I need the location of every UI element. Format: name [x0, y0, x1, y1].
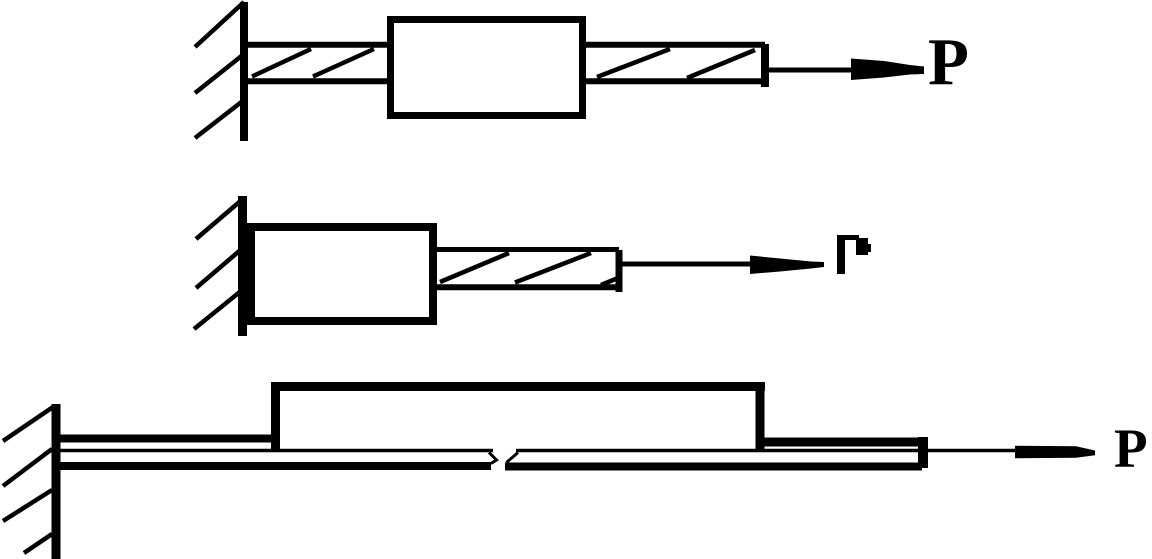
right rod hatch 2: [687, 50, 755, 78]
wall hatch 2c: [194, 291, 241, 329]
rod end cap (figure 2): [616, 250, 623, 292]
force arrowhead (figure 1): [851, 59, 924, 81]
cover plate fill (figure 3): [275, 386, 760, 448]
left rod hatch 2: [313, 49, 374, 77]
bottom sheet left segment (figure 3): [60, 462, 491, 470]
rod bottom edge (figure 2): [437, 284, 619, 290]
wall hatch 3a: [3, 407, 53, 441]
left rod bottom edge (figure 1): [248, 78, 392, 84]
rod hatch 1 (figure 2): [440, 253, 509, 282]
cover plate left border (figure 3): [271, 382, 280, 452]
svg-text:P: P: [928, 25, 969, 99]
force line (figure 3): [926, 449, 1020, 453]
cover plate top border (figure 3): [271, 382, 765, 391]
large block (figure 1): [391, 20, 583, 116]
label P bowl fragment (figure 2): [856, 238, 868, 255]
label P top bar (figure 2): [837, 235, 859, 240]
rod hatch 2 (figure 2): [515, 253, 591, 283]
left strip top edge (figure 3): [60, 435, 276, 443]
right rod hatch 1: [597, 49, 670, 77]
left rod top edge (figure 1): [248, 42, 392, 48]
label P stem (figure 2, degraded glyph): [837, 235, 845, 274]
force arrowhead (figure 2): [750, 256, 824, 275]
wall hatch 3b: [3, 449, 52, 486]
label P bowl nub (figure 2): [866, 244, 871, 252]
right rod top edge (figure 1): [582, 42, 765, 48]
wall support (figure 1): [240, 2, 248, 141]
right strip top edge (figure 3): [760, 438, 922, 447]
rod end cap (figure 1): [761, 44, 769, 87]
cover plate right border (figure 3): [756, 382, 765, 452]
force line (figure 2): [622, 262, 754, 267]
wall hatch 3d: [24, 534, 52, 553]
strip end cap (figure 3): [918, 437, 928, 468]
large block (figure 2): [251, 227, 433, 321]
wall hatch 1b: [195, 54, 244, 93]
wall support (figure 3): [52, 404, 61, 559]
wall hatch 1c: [195, 100, 244, 138]
svg-text:P: P: [1114, 418, 1148, 479]
wall hatch 3c: [3, 490, 52, 521]
wall hatch 2b: [196, 247, 244, 288]
strip mid line right of gap (figure 3): [516, 449, 918, 453]
strip mid line left of gap (figure 3): [60, 449, 493, 453]
butt joint jag left (figure 3): [489, 453, 497, 464]
bottom sheet right segment (figure 3): [505, 463, 922, 471]
force arrowhead (figure 3): [1015, 446, 1095, 459]
left rod hatch 1: [252, 49, 311, 77]
rod hatch 3 partial (figure 2): [601, 278, 618, 285]
butt joint jag right (figure 3): [507, 453, 519, 463]
rod top edge (figure 2): [437, 247, 619, 252]
force line (figure 1): [769, 68, 856, 73]
wall support (figure 2): [238, 196, 247, 336]
right rod bottom edge (figure 1): [582, 78, 765, 84]
wall hatch 1a: [195, 2, 244, 47]
wall hatch 2a: [196, 198, 244, 239]
